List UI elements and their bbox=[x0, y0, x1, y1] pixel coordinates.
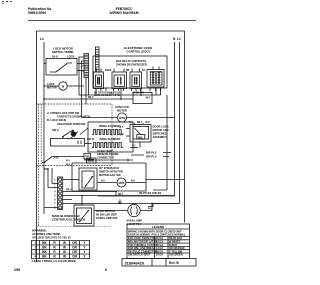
svg-text:UTILIZED CIRCUITS TO YEL ID: UTILIZED CIRCUITS TO YEL ID bbox=[32, 236, 71, 240]
svg-text:OR: OR bbox=[72, 241, 77, 245]
svg-text:L1 N2 H1 W2 BK Y R H2: L1 N2 H1 W2 BK Y R H2 bbox=[94, 95, 121, 97]
svg-text:AC WIRES AND TERM.: AC WIRES AND TERM. bbox=[32, 232, 61, 236]
svg-text:DOOR IN NORMAL POS & SWITCHES: DOOR IN NORMAL POS & SWITCHES NORMAL bbox=[128, 233, 186, 237]
svg-text:3: 3 bbox=[35, 250, 37, 254]
svg-text:L2: L2 bbox=[177, 37, 181, 41]
svg-text:CONTACTS SHOWN WITH: CONTACTS SHOWN WITH bbox=[57, 115, 90, 119]
svg-text:OVEN LAMP: OVEN LAMP bbox=[126, 219, 142, 223]
svg-text:Rev. B: Rev. B bbox=[169, 261, 179, 265]
svg-text:WARNING:: WARNING: bbox=[32, 229, 47, 233]
svg-text:BK: BK bbox=[42, 241, 47, 245]
svg-text:SHOWN DE-ENERGIZED: SHOWN DE-ENERGIZED bbox=[116, 63, 147, 67]
svg-text:WIRING DIAGRAM: WIRING DIAGRAM bbox=[110, 11, 139, 15]
svg-text:M: M bbox=[62, 85, 65, 89]
svg-text:SW B: SW B bbox=[87, 137, 94, 141]
svg-text:CONNECTOR: CONNECTOR bbox=[97, 156, 114, 160]
svg-text:N: N bbox=[173, 37, 176, 41]
svg-text:6: 6 bbox=[105, 268, 107, 272]
svg-text:DOOR SWITCH: DOOR SWITCH bbox=[96, 209, 115, 213]
svg-text:2: 2 bbox=[54, 184, 56, 186]
svg-text:1: 1 bbox=[54, 180, 56, 182]
svg-text:18-A: 18-A bbox=[52, 55, 58, 59]
svg-text:OVEN TEMP: OVEN TEMP bbox=[97, 149, 113, 153]
svg-text:Y: Y bbox=[83, 241, 86, 245]
svg-text:UNLOCKED POSITION: UNLOCKED POSITION bbox=[57, 122, 85, 126]
svg-text:BAKE: BAKE bbox=[105, 69, 112, 72]
svg-text:A-B: A-B bbox=[54, 156, 59, 160]
svg-text:W-2: W-2 bbox=[146, 98, 151, 100]
svg-text:LOCK: LOCK bbox=[47, 82, 55, 86]
svg-text:MTR: MTR bbox=[119, 116, 125, 120]
svg-text:7: 7 bbox=[54, 204, 56, 206]
svg-text:W: W bbox=[63, 245, 66, 249]
svg-text:SWITCH TERML: SWITCH TERML bbox=[52, 50, 74, 54]
svg-text:B. LOCK SW IN: B. LOCK SW IN bbox=[47, 118, 66, 122]
svg-text:BK-2: BK-2 bbox=[88, 97, 94, 99]
svg-text:BR: BR bbox=[126, 70, 130, 72]
svg-text:CONTROL (EOC): CONTROL (EOC) bbox=[126, 50, 149, 54]
svg-text:Y: Y bbox=[83, 254, 86, 258]
svg-text:MTR: MTR bbox=[119, 181, 125, 185]
svg-text:318046429: 318046429 bbox=[125, 261, 145, 266]
svg-text:MOTOR: MOTOR bbox=[117, 109, 127, 113]
svg-text:5: 5 bbox=[54, 196, 56, 198]
svg-text:BAKE ELEMENT: BAKE ELEMENT bbox=[100, 137, 121, 141]
svg-text:P-4: P-4 bbox=[66, 160, 70, 163]
svg-text:2/99: 2/99 bbox=[14, 268, 20, 272]
svg-text:OR: OR bbox=[72, 254, 77, 258]
svg-text:L1: L1 bbox=[40, 37, 44, 41]
svg-text:W: W bbox=[63, 250, 66, 254]
svg-text:K2: K2 bbox=[142, 70, 146, 72]
svg-text:2 BAKE 3 BROIL 4 S-CLEAN MODE: 2 BAKE 3 BROIL 4 S-CLEAN MODE bbox=[32, 259, 76, 263]
svg-text:BK: BK bbox=[42, 254, 47, 258]
svg-text:CONV FAN: CONV FAN bbox=[115, 105, 129, 109]
svg-text:OVEN LAMP-P04: OVEN LAMP-P04 bbox=[96, 216, 118, 220]
svg-text:MDL: MDL bbox=[138, 137, 144, 139]
svg-text:R: R bbox=[53, 254, 56, 258]
svg-text:GN GREEN: GN GREEN bbox=[169, 253, 183, 257]
svg-text:OR: OR bbox=[72, 245, 77, 249]
svg-text:SWITCH WITH FAN: SWITCH WITH FAN bbox=[99, 170, 123, 174]
svg-text:90-P5-D1 SW-P4: 90-P5-D1 SW-P4 bbox=[139, 191, 162, 195]
svg-text:18 GA: 18 GA bbox=[156, 253, 164, 257]
svg-text:BK: BK bbox=[42, 250, 47, 254]
svg-text:OR-1: OR-1 bbox=[66, 190, 72, 192]
svg-text:W: W bbox=[63, 241, 66, 245]
svg-text:SWITCHES: SWITCHES bbox=[153, 132, 167, 136]
svg-text:5995110000: 5995110000 bbox=[28, 11, 46, 15]
svg-text:R: R bbox=[53, 250, 56, 254]
svg-text:6: 6 bbox=[54, 200, 56, 202]
svg-text:3: 3 bbox=[54, 188, 56, 190]
svg-text:MOTOR AND: MOTOR AND bbox=[153, 128, 169, 132]
svg-text:DLB RELAY CONTACTS: DLB RELAY CONTACTS bbox=[116, 59, 146, 63]
svg-text:OR: OR bbox=[72, 250, 77, 254]
svg-text:R: R bbox=[53, 241, 56, 245]
svg-text:W-6: W-6 bbox=[146, 122, 151, 124]
svg-text:90° INTERLOCK: 90° INTERLOCK bbox=[99, 166, 119, 170]
svg-text:W-3: W-3 bbox=[66, 165, 71, 167]
svg-text:90 SW L&R SIDE: 90 SW L&R SIDE bbox=[96, 213, 117, 217]
svg-text:BK: BK bbox=[42, 245, 47, 249]
svg-text:BK-1: BK-1 bbox=[118, 194, 124, 196]
svg-text:R: R bbox=[53, 245, 56, 249]
svg-text:SW SWITCH-SPST: SW SWITCH-SPST bbox=[128, 253, 151, 257]
svg-text:W BK R N: W BK R N bbox=[133, 93, 144, 95]
svg-text:LEGEND: LEGEND bbox=[152, 225, 164, 229]
svg-text:W: W bbox=[63, 254, 66, 258]
svg-text:A. UPPER LOCK MTR SW: A. UPPER LOCK MTR SW bbox=[47, 111, 80, 115]
svg-text:SENSOR-PROBE: SENSOR-PROBE bbox=[97, 152, 119, 156]
svg-text:MOTOR-SAIL SW: MOTOR-SAIL SW bbox=[99, 173, 121, 177]
svg-text:LOCK: LOCK bbox=[67, 55, 75, 59]
svg-text:4: 4 bbox=[54, 191, 56, 194]
svg-text:BROIL ELEMENT: BROIL ELEMENT bbox=[99, 124, 121, 128]
svg-text:2: 2 bbox=[35, 245, 37, 249]
svg-text:Y: Y bbox=[83, 245, 86, 249]
svg-text:8: 8 bbox=[54, 208, 56, 210]
svg-text:ASSEMBLY: ASSEMBLY bbox=[153, 135, 168, 139]
svg-text:Y: Y bbox=[83, 250, 86, 254]
svg-text:BK-5: BK-5 bbox=[137, 122, 143, 124]
svg-text:DOOR LOCK: DOOR LOCK bbox=[153, 125, 169, 129]
svg-text:OR-PL2: OR-PL2 bbox=[146, 155, 157, 159]
svg-text:1: 1 bbox=[35, 241, 37, 245]
svg-text:SW A: SW A bbox=[52, 128, 59, 132]
svg-text:4: 4 bbox=[35, 254, 37, 258]
